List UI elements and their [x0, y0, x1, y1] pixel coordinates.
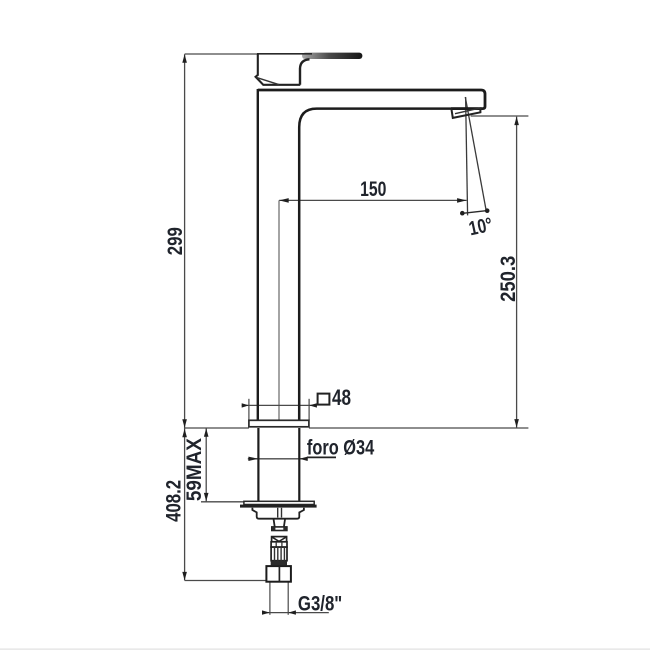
svg-text:150: 150	[360, 177, 386, 201]
svg-text:G3/8": G3/8"	[298, 593, 342, 616]
svg-text:299: 299	[164, 227, 187, 255]
svg-text:foro Ø34: foro Ø34	[307, 436, 375, 459]
svg-text:48: 48	[332, 386, 351, 411]
svg-text:250.3: 250.3	[497, 256, 520, 302]
svg-text:10°: 10°	[467, 213, 495, 240]
svg-text:59MAX: 59MAX	[183, 437, 206, 501]
